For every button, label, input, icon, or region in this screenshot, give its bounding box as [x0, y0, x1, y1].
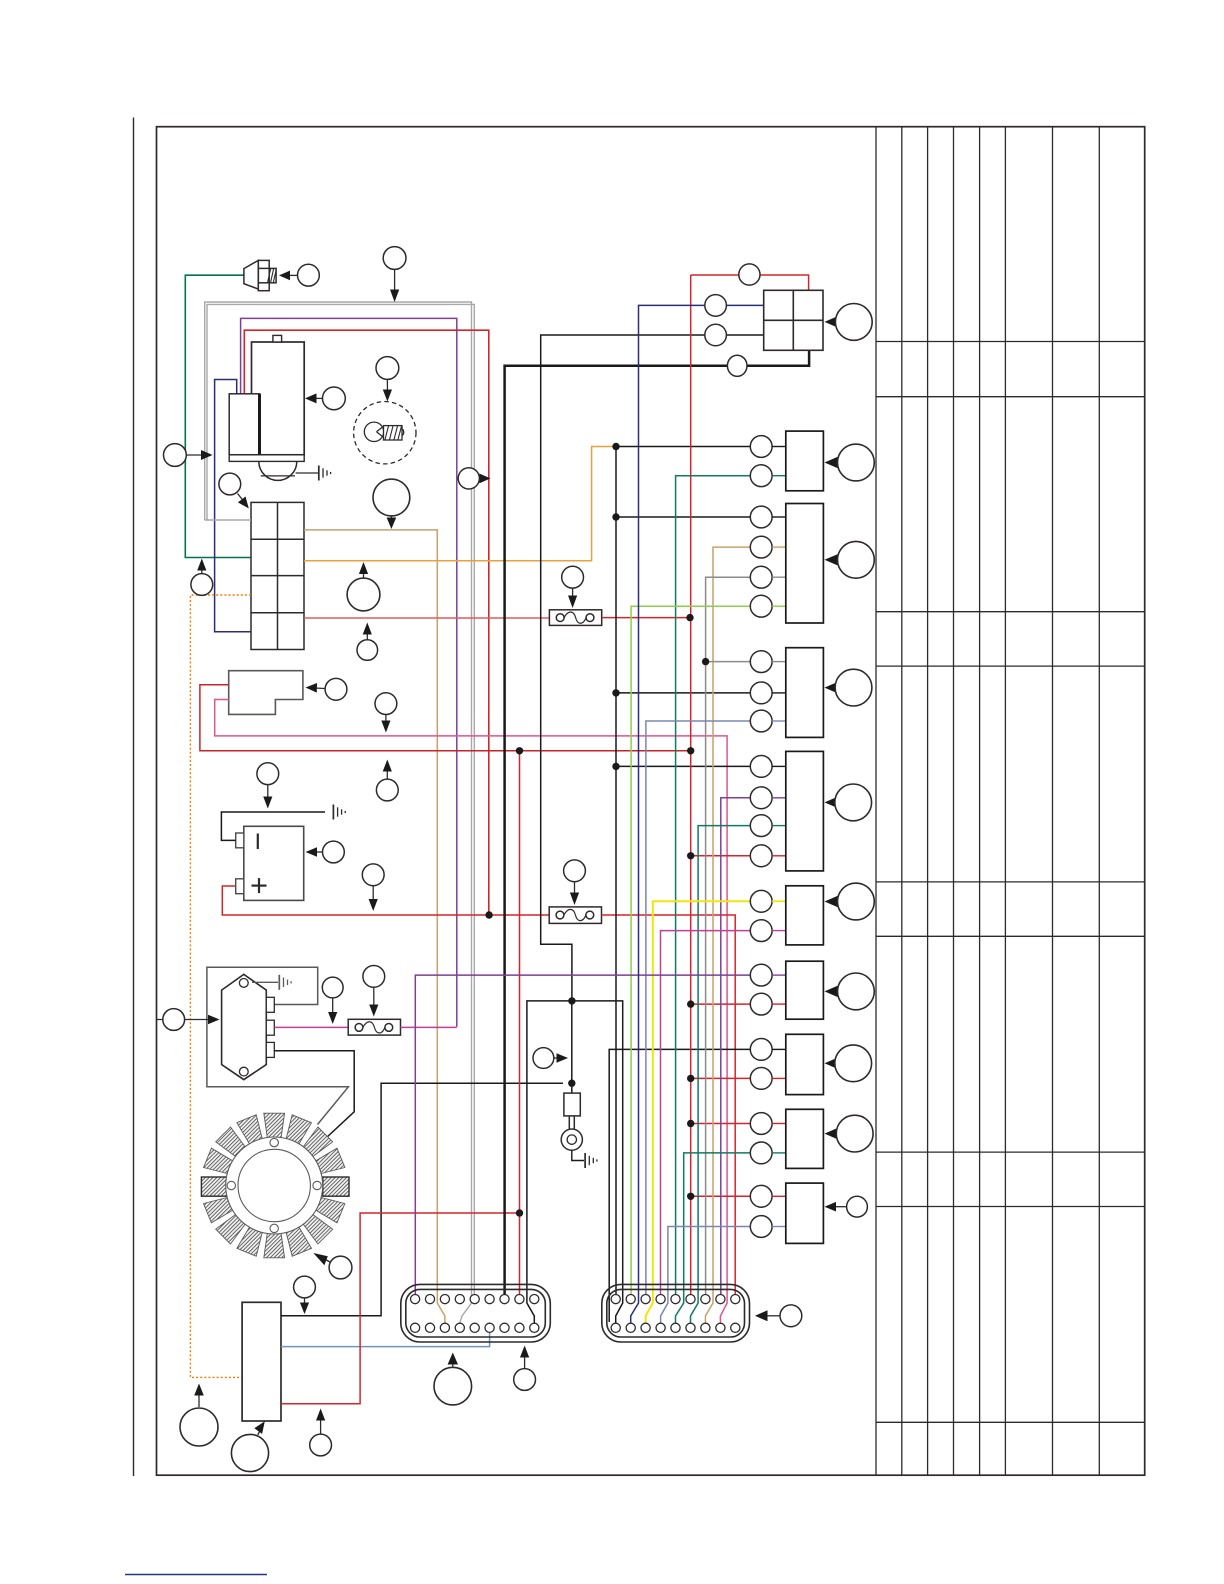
key switch S1: [229, 671, 303, 715]
connector J2 pins top: [411, 1295, 539, 1304]
wire: black pin lead component A1: [616, 446, 750, 448]
component B pins: [750, 506, 772, 528]
callout 2 (gray harness): [383, 247, 406, 302]
connector J3 pins bottom: [611, 1323, 740, 1332]
wire: red harness loop: [244, 330, 488, 915]
wire: red pin lead component I1: [691, 1195, 751, 1197]
callout 25 (CDI black lead): [294, 1276, 316, 1314]
wire: steel blue (CDI to left connector): [281, 1332, 490, 1346]
ignition coil T1 secondary: [252, 342, 305, 455]
crimp splice: [564, 1093, 580, 1116]
wire: regulator gray loop: [207, 967, 349, 1124]
junction: bus at B1: [612, 513, 619, 520]
pin circle: navy feed: [705, 295, 727, 317]
callout 6 (rectifier): [219, 473, 249, 508]
callout 17 (battery positive lead): [362, 864, 384, 911]
callout 29 (CDI lead at connector J2): [434, 1353, 472, 1405]
wire: teal green (component D3 to right connector): [691, 826, 751, 1323]
wire: spark plug lead (green): [185, 275, 251, 557]
callout 31 (connector J3): [755, 1305, 802, 1327]
wire: slate blue (component I2 to right connector): [661, 1227, 751, 1324]
wire: ground bus branch to left connector: [527, 1001, 572, 1323]
wire: yellow (component E1 to right connector): [646, 901, 751, 1323]
junction: red at CDI lead: [516, 1209, 523, 1216]
wire: ground bus drop to ring terminal: [571, 1001, 573, 1093]
fuse F1: [549, 610, 601, 626]
node: revision table grid: [876, 127, 1145, 1476]
wire: red pin lead component G2: [691, 1077, 751, 1079]
wire: teal (component A2 to right connector): [676, 476, 751, 1295]
wire: blue coil feed: [215, 380, 251, 632]
callout 36 (component D): [825, 784, 872, 821]
wire: purple harness loop: [241, 318, 457, 1026]
wire: orange dotted (rectifier to CDI): [190, 595, 251, 1377]
wire: tan (rectifier to left connector): [304, 530, 445, 1323]
junction: red at battery feed: [485, 911, 492, 918]
wire: red pin lead component D4: [691, 855, 751, 857]
wire: pink (key switch to connector): [215, 700, 727, 1324]
junction: bus at A1: [612, 443, 619, 450]
junction: bus at C2: [612, 689, 619, 696]
wire: thick black (2x2 connector to left connector): [505, 350, 809, 1295]
component I: [786, 1183, 824, 1243]
junction: ground bus: [568, 997, 575, 1004]
spark plug P1: [244, 260, 276, 290]
component B: [786, 504, 824, 624]
stator G1 core rings: [226, 1137, 323, 1234]
callout 33 (component A): [825, 444, 875, 481]
ignition coil T1 primary: [229, 394, 259, 455]
callout 26 (orange dotted lead): [180, 1384, 218, 1447]
callout 20 (regulator): [157, 1009, 220, 1031]
callout 18 (fuse F1): [562, 566, 584, 608]
wire: black (CDI to ground bus riser): [281, 1083, 563, 1316]
wire: gray pin lead component C1: [706, 661, 751, 663]
component A: [786, 431, 824, 491]
callout 21 (magenta lead): [322, 977, 343, 1024]
callout 38 (component F): [825, 973, 875, 1010]
fuse F2: [549, 907, 601, 924]
wire: gray harness loop (pair): [205, 302, 475, 1323]
ignition coil dome: [259, 461, 297, 480]
wire: battery negative to ground: [221, 812, 325, 840]
callout 23 (engine ground lead): [533, 1048, 568, 1069]
callout 9 (orange lead): [347, 562, 380, 611]
ignition coil T1 top cap: [273, 335, 282, 342]
wire: left margin rule: [133, 118, 135, 1477]
connector J2 (left 18-pin): [401, 1284, 551, 1342]
wire: violet (component D2 to right connector): [721, 798, 751, 1295]
wire: black (regulator to stator): [274, 1051, 354, 1139]
ground: engine ground: [585, 1153, 597, 1168]
wire: gray bus (component B3 / C1): [706, 577, 751, 1295]
component H: [786, 1109, 824, 1168]
junction: red at key riser: [516, 747, 523, 754]
voltage regulator VR1: [222, 974, 275, 1079]
wire: thin black frame (2x2 connector to ground bus): [541, 335, 764, 1001]
wire: teal (component H2 to right connector): [676, 1153, 751, 1323]
wire: light green (component B4 to right connector): [631, 606, 750, 1295]
callout 14 (dark red lead): [376, 760, 398, 801]
pin circle: black feed: [705, 324, 727, 346]
callout 34 (component B): [825, 541, 875, 578]
callout 13 (pink lead): [375, 693, 397, 733]
component D: [786, 751, 824, 871]
pin circle: red feed: [739, 264, 760, 285]
callout 40 (component H): [825, 1115, 874, 1152]
ground: ignition coil: [296, 466, 331, 481]
callout 1 (spark plug): [279, 264, 319, 286]
callout 39 (component G): [825, 1045, 872, 1082]
callout 37 (component E): [825, 883, 875, 920]
callout 5 (coil left): [164, 444, 213, 467]
wire: red (CDI to connector junction): [281, 1213, 520, 1404]
callout 11 (red harness riser): [458, 468, 490, 489]
wire: orange (rectifier to junction A): [304, 447, 616, 561]
callout 16 (battery): [306, 841, 345, 863]
component D pins: [750, 756, 772, 778]
component F pins: [750, 964, 772, 986]
wire: magenta (fuse F3 to purple riser): [401, 1026, 457, 1028]
wire: ring terminal to ground: [572, 1150, 584, 1160]
component F: [786, 961, 824, 1019]
callout 24 (stator): [313, 1253, 352, 1279]
callout 15 (battery ground lead): [257, 763, 279, 809]
junction: CDI ground tap: [568, 1080, 575, 1087]
callout 10 (light red lead): [357, 623, 378, 661]
component G: [786, 1034, 824, 1094]
wire: red pin lead component F2: [691, 1003, 751, 1005]
callout 27 (CDI): [231, 1421, 268, 1471]
component G pins: [750, 1039, 772, 1061]
fuse F3: [348, 1019, 400, 1035]
connector J3 (right 18-pin): [602, 1284, 750, 1342]
wire: ground bus branch to right connector: [572, 1001, 623, 1323]
callout 8 (green lead): [191, 559, 213, 596]
component E: [786, 886, 824, 945]
component C: [786, 648, 824, 738]
wire: black pin lead component G1b: [609, 1049, 750, 1322]
component I pins: [750, 1185, 772, 1207]
wire: red pin lead component H1: [691, 1123, 751, 1125]
component E pins: [750, 890, 772, 912]
ground: regulator: [252, 975, 291, 990]
wire: magenta (component E2 to right connector): [661, 931, 751, 1295]
junction: bus at D1: [612, 763, 619, 770]
connector J3 pins top: [611, 1295, 740, 1304]
callout 22 (fuse F3): [363, 966, 385, 1017]
junction: red at key feed: [687, 747, 694, 754]
callout 4 (ignition coil): [305, 387, 345, 410]
wire: footer underline: [125, 1574, 267, 1576]
ring terminal: [568, 1116, 570, 1130]
connector J1 (2x2): [764, 290, 823, 350]
wire: gray stub to rectifier: [205, 519, 251, 521]
component C pins: [750, 651, 772, 673]
junction: gray at C1: [702, 658, 709, 665]
callout 35 (component C): [825, 669, 872, 706]
wire: navy (2x2 connector to right connector): [631, 305, 764, 1323]
callout 41 (component I): [825, 1196, 868, 1217]
callout 3 (lamp): [376, 357, 399, 402]
callout 28 (CDI red lead): [310, 1409, 332, 1456]
wire: light red (rectifier to fuse F1): [304, 617, 549, 619]
wire: black pin lead component B1: [616, 516, 750, 518]
wire: red (fuse F1 to junction): [602, 617, 690, 619]
rectifier BR1: [251, 502, 304, 649]
wire: red bus riser: [690, 275, 692, 1295]
wire: magenta (regulator to fuse F3): [274, 1026, 348, 1028]
junction: red at F1: [686, 614, 693, 621]
wire: red riser (key feed to left connector): [519, 751, 521, 1295]
wire: battery positive (red) to fuse F2: [222, 886, 549, 915]
wire: black pin lead component C2: [616, 692, 750, 694]
callout 7 (tan lead): [373, 479, 410, 529]
wire: tan riser (component B2): [705, 547, 750, 1323]
ignition coil base plate: [229, 455, 304, 462]
callout 30 (connector J2): [514, 1346, 536, 1391]
wire: black pin lead component D1: [616, 765, 750, 767]
lamp L1 bulb: [364, 422, 403, 441]
callout 32 (connector J1): [825, 304, 873, 341]
lamp L1 dashed circle: [354, 402, 416, 464]
wire: red (fuse F2 to right connector): [602, 915, 736, 1295]
wire: violet (component F1 to left connector): [415, 975, 750, 1295]
connector J2 pins bottom: [411, 1323, 539, 1332]
wire: black bus (junction A chain to right connector): [615, 447, 617, 1296]
wire: dark red (key switch feed): [200, 685, 691, 751]
component H pins: [750, 1113, 772, 1135]
stator G1 side poles: [201, 1177, 227, 1196]
wire: red (2x2 connector feed): [691, 275, 809, 290]
callout 12 (key switch): [306, 678, 347, 700]
component A pins: [750, 436, 772, 458]
stator G1 teeth: [204, 1113, 345, 1258]
ground: battery: [333, 805, 345, 820]
node: outer diagram border: [157, 127, 1145, 1476]
battery BT1: [244, 826, 304, 900]
CDI unit U1: [242, 1302, 281, 1421]
pin circle: thick black feed: [727, 355, 747, 376]
wire: slate blue (component C3 to right connector): [646, 721, 750, 1295]
callout 19 (fuse F2): [564, 860, 586, 905]
